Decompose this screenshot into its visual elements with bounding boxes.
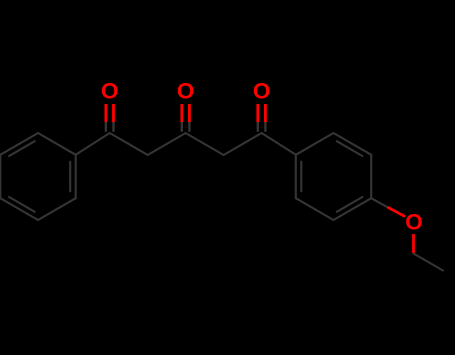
- carbonyl C=O double bond 3: [258, 104, 266, 132]
- wire bond aryl-O red half: [389, 208, 405, 216]
- wire bond C2-C3: [148, 133, 186, 155]
- wire bond phenyl-C1: [76, 133, 110, 155]
- wire bond C4-C5: [224, 133, 262, 155]
- svg-text:O: O: [177, 79, 195, 104]
- atom O3 label: [253, 79, 271, 104]
- wire bond C1-C2: [110, 133, 148, 155]
- benzene ring left phenyl: [0, 133, 75, 220]
- atom O4 ether label: [405, 210, 423, 235]
- svg-text:O: O: [405, 210, 423, 235]
- atom O1 label: [101, 79, 119, 104]
- benzene ring 4-ethoxyphenyl: [296, 133, 371, 220]
- carbonyl C=O double bond 2: [182, 104, 190, 132]
- wire bond C5-aryl: [262, 133, 296, 155]
- atom O2 label: [177, 79, 195, 104]
- wire bond CH2-CH3: [414, 254, 444, 271]
- wire bond O-CH2: [412, 234, 415, 253]
- wire bond C3-C4: [186, 133, 224, 155]
- svg-text:O: O: [101, 79, 119, 104]
- carbonyl C=O double bond 1: [106, 104, 114, 132]
- wire bond aryl-O gray half: [371, 198, 389, 208]
- svg-text:O: O: [253, 79, 271, 104]
